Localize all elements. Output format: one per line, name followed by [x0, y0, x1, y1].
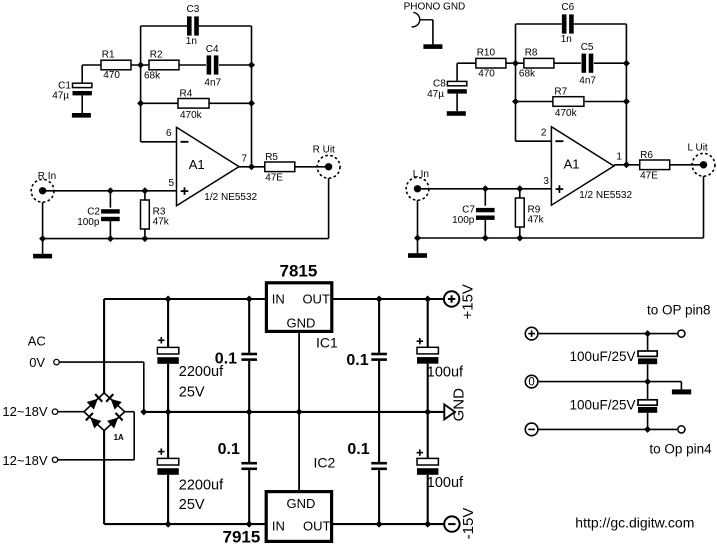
svg-text:R1: R1 — [102, 50, 115, 61]
svg-text:L Uit: L Uit — [688, 143, 708, 154]
svg-text:R2: R2 — [150, 50, 163, 61]
svg-text:1n: 1n — [186, 36, 197, 47]
svg-text:47k: 47k — [153, 217, 170, 228]
svg-text:68k: 68k — [144, 70, 161, 81]
svg-text:C4: C4 — [206, 44, 219, 55]
svg-text:to OP pin8: to OP pin8 — [647, 302, 711, 317]
svg-text:3: 3 — [543, 176, 549, 187]
svg-text:12~18V: 12~18V — [2, 453, 48, 468]
svg-text:IC2: IC2 — [314, 455, 336, 471]
svg-text:2: 2 — [541, 127, 547, 138]
svg-text:1: 1 — [616, 151, 622, 162]
svg-text:IN: IN — [272, 518, 285, 533]
svg-text:5: 5 — [169, 178, 175, 189]
svg-text:0.1: 0.1 — [215, 350, 237, 367]
svg-text:C5: C5 — [581, 42, 594, 53]
svg-text:100uF/25V: 100uF/25V — [569, 349, 635, 364]
svg-text:4n7: 4n7 — [579, 76, 596, 87]
svg-text:-15V: -15V — [460, 508, 477, 540]
svg-text:12~18V: 12~18V — [2, 404, 48, 419]
svg-text:47µ: 47µ — [52, 91, 69, 102]
svg-text:0: 0 — [528, 377, 534, 389]
svg-text:47E: 47E — [640, 171, 658, 182]
svg-text:7: 7 — [242, 153, 248, 164]
svg-text:OUT: OUT — [302, 292, 330, 307]
svg-text:A1: A1 — [189, 157, 205, 172]
svg-text:470k: 470k — [555, 108, 578, 119]
svg-text:0V: 0V — [29, 355, 45, 370]
svg-text:C6: C6 — [561, 2, 574, 13]
svg-text:100p: 100p — [452, 215, 475, 226]
svg-text:100uF/25V: 100uF/25V — [569, 398, 635, 413]
svg-text:47k: 47k — [528, 215, 545, 226]
svg-text:0.1: 0.1 — [346, 352, 368, 369]
svg-text:R5: R5 — [265, 152, 278, 163]
svg-text:L In: L In — [413, 169, 429, 180]
svg-text:470k: 470k — [180, 110, 203, 121]
svg-text:7915: 7915 — [223, 528, 261, 545]
svg-text:470: 470 — [103, 70, 120, 81]
svg-text:C3: C3 — [187, 4, 200, 15]
svg-text:C7: C7 — [462, 204, 475, 215]
svg-text:R Uit: R Uit — [313, 145, 335, 156]
svg-text:0.1: 0.1 — [218, 441, 240, 458]
svg-text:C2: C2 — [87, 206, 100, 217]
svg-text:47E: 47E — [265, 173, 283, 184]
svg-text:4n7: 4n7 — [204, 77, 221, 88]
svg-text:25V: 25V — [179, 385, 205, 401]
svg-text:25V: 25V — [179, 497, 205, 513]
svg-text:GND: GND — [287, 316, 316, 331]
svg-text:to Op pin4: to Op pin4 — [649, 442, 712, 457]
svg-text:100uf: 100uf — [427, 475, 464, 491]
svg-text:1n: 1n — [561, 34, 572, 45]
svg-text:470: 470 — [478, 68, 495, 79]
svg-text:1/2 NE5532: 1/2 NE5532 — [579, 190, 632, 201]
svg-text:R4: R4 — [180, 89, 193, 100]
svg-text:1A: 1A — [114, 433, 124, 442]
svg-text:R6: R6 — [640, 150, 653, 161]
svg-text:OUT: OUT — [303, 518, 331, 533]
svg-text:1/2 NE5532: 1/2 NE5532 — [204, 192, 257, 203]
svg-text:GND: GND — [451, 388, 468, 422]
svg-text:IC1: IC1 — [316, 335, 338, 351]
svg-text:AC: AC — [28, 334, 46, 349]
svg-text:GND: GND — [287, 496, 316, 511]
svg-text:100uf: 100uf — [427, 364, 464, 380]
svg-text:R In: R In — [38, 171, 56, 182]
svg-text:R7: R7 — [554, 87, 567, 98]
svg-text:IN: IN — [272, 292, 285, 307]
svg-text:+15V: +15V — [460, 284, 477, 319]
svg-text:68k: 68k — [519, 69, 536, 80]
svg-text:0.1: 0.1 — [347, 441, 369, 458]
svg-text:PHONO GND: PHONO GND — [404, 1, 466, 12]
svg-text:2200uf: 2200uf — [179, 477, 224, 493]
svg-text:47µ: 47µ — [427, 89, 444, 100]
svg-text:http://gc.digitw.com: http://gc.digitw.com — [575, 514, 694, 530]
svg-text:100p: 100p — [77, 217, 100, 228]
svg-text:R10: R10 — [477, 48, 496, 59]
svg-text:6: 6 — [166, 128, 172, 139]
svg-text:A1: A1 — [564, 157, 580, 172]
svg-text:7815: 7815 — [280, 262, 318, 281]
svg-text:R8: R8 — [525, 48, 538, 59]
